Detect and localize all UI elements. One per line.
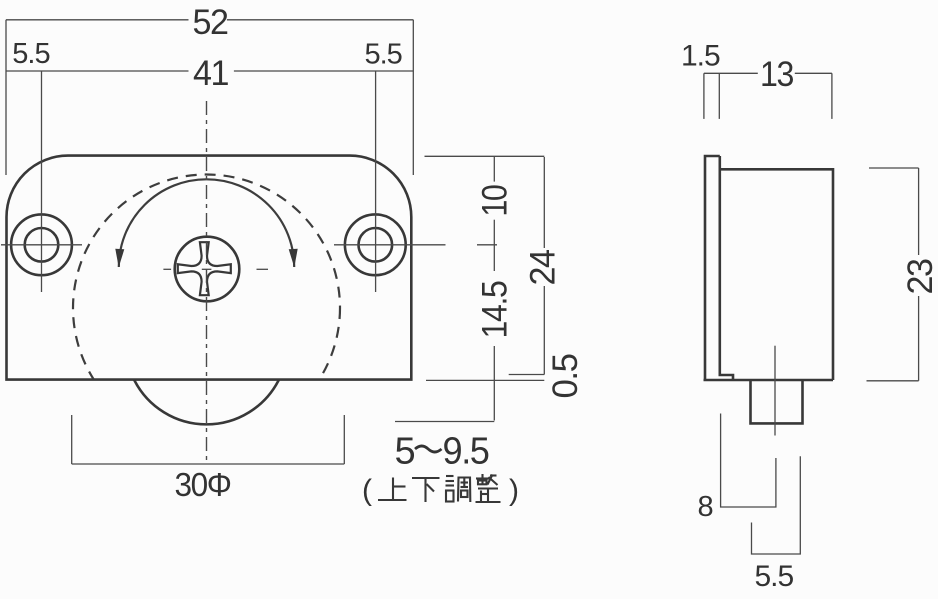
dim 13 line — [704, 72, 758, 74]
arrowhead left — [115, 249, 124, 267]
hole centerline right — [334, 244, 446, 246]
right dim group: top ext line — [425, 155, 545, 157]
roller protruding arc — [134, 380, 279, 425]
tick 24 bottom — [509, 374, 545, 376]
svg-text:23: 23 — [901, 259, 938, 294]
dim 23 — [869, 167, 919, 169]
side body main — [720, 169, 833, 380]
vertical centerline — [206, 101, 208, 461]
ext line left hole — [41, 71, 43, 292]
hole centerline left — [1, 244, 82, 246]
svg-text:5: 5 — [395, 430, 415, 472]
svg-text:1.5: 1.5 — [681, 40, 720, 73]
roller dashed circle 30phi — [73, 175, 340, 442]
dim 24 vertical line — [543, 157, 545, 248]
phillips screw circle — [175, 237, 240, 302]
svg-text:10: 10 — [476, 185, 515, 217]
svg-text:52: 52 — [193, 3, 228, 42]
svg-text:30Φ: 30Φ — [175, 466, 231, 503]
dim line 10/14.5 vertical — [493, 156, 495, 181]
svg-text:): ) — [509, 474, 518, 507]
bottom edge ext line — [426, 379, 544, 381]
dim 5.5 bottom — [752, 456, 801, 554]
svg-text:5.5: 5.5 — [365, 39, 402, 71]
spigot centerline — [774, 346, 776, 436]
ext lines top — [703, 73, 705, 119]
side body flange — [705, 156, 720, 380]
svg-text:(: ( — [362, 474, 372, 507]
plate outline (front view) — [7, 156, 412, 380]
hole centerline right ext — [477, 244, 497, 246]
svg-text:5.5: 5.5 — [755, 560, 794, 593]
spigot — [751, 381, 803, 424]
svg-text:9.5: 9.5 — [443, 430, 489, 472]
kanji chou — [446, 476, 471, 502]
screw hole right inner — [359, 228, 393, 262]
svg-text:8: 8 — [698, 491, 713, 523]
phillips horiz centerline — [163, 268, 171, 270]
kanji ue — [378, 478, 407, 501]
screw hole left inner — [25, 228, 59, 262]
kanji shita — [412, 478, 440, 502]
ext line right edge — [412, 20, 414, 175]
dim 52 line — [6, 19, 189, 21]
ext line left edge — [5, 20, 7, 175]
bottom leader for 5-9.5 — [395, 421, 494, 423]
svg-text:41: 41 — [193, 54, 228, 93]
svg-text:0.5: 0.5 — [546, 354, 585, 398]
side body bottom — [704, 379, 834, 382]
wave dash — [415, 446, 442, 452]
kanji sei — [476, 474, 501, 502]
svg-text:13: 13 — [760, 55, 793, 94]
arrowhead right — [289, 249, 298, 267]
svg-text:5.5: 5.5 — [12, 38, 49, 70]
30phi bracket — [71, 415, 73, 464]
screw hole right outer — [345, 214, 406, 275]
rotation arc — [119, 179, 294, 267]
screw hole left outer — [11, 214, 72, 275]
dim 41 line — [6, 70, 189, 72]
ext line right hole — [375, 71, 377, 292]
svg-text:14.5: 14.5 — [476, 281, 515, 338]
phillips cross — [178, 242, 231, 295]
svg-text:24: 24 — [524, 249, 563, 285]
dim 8 — [721, 414, 776, 508]
